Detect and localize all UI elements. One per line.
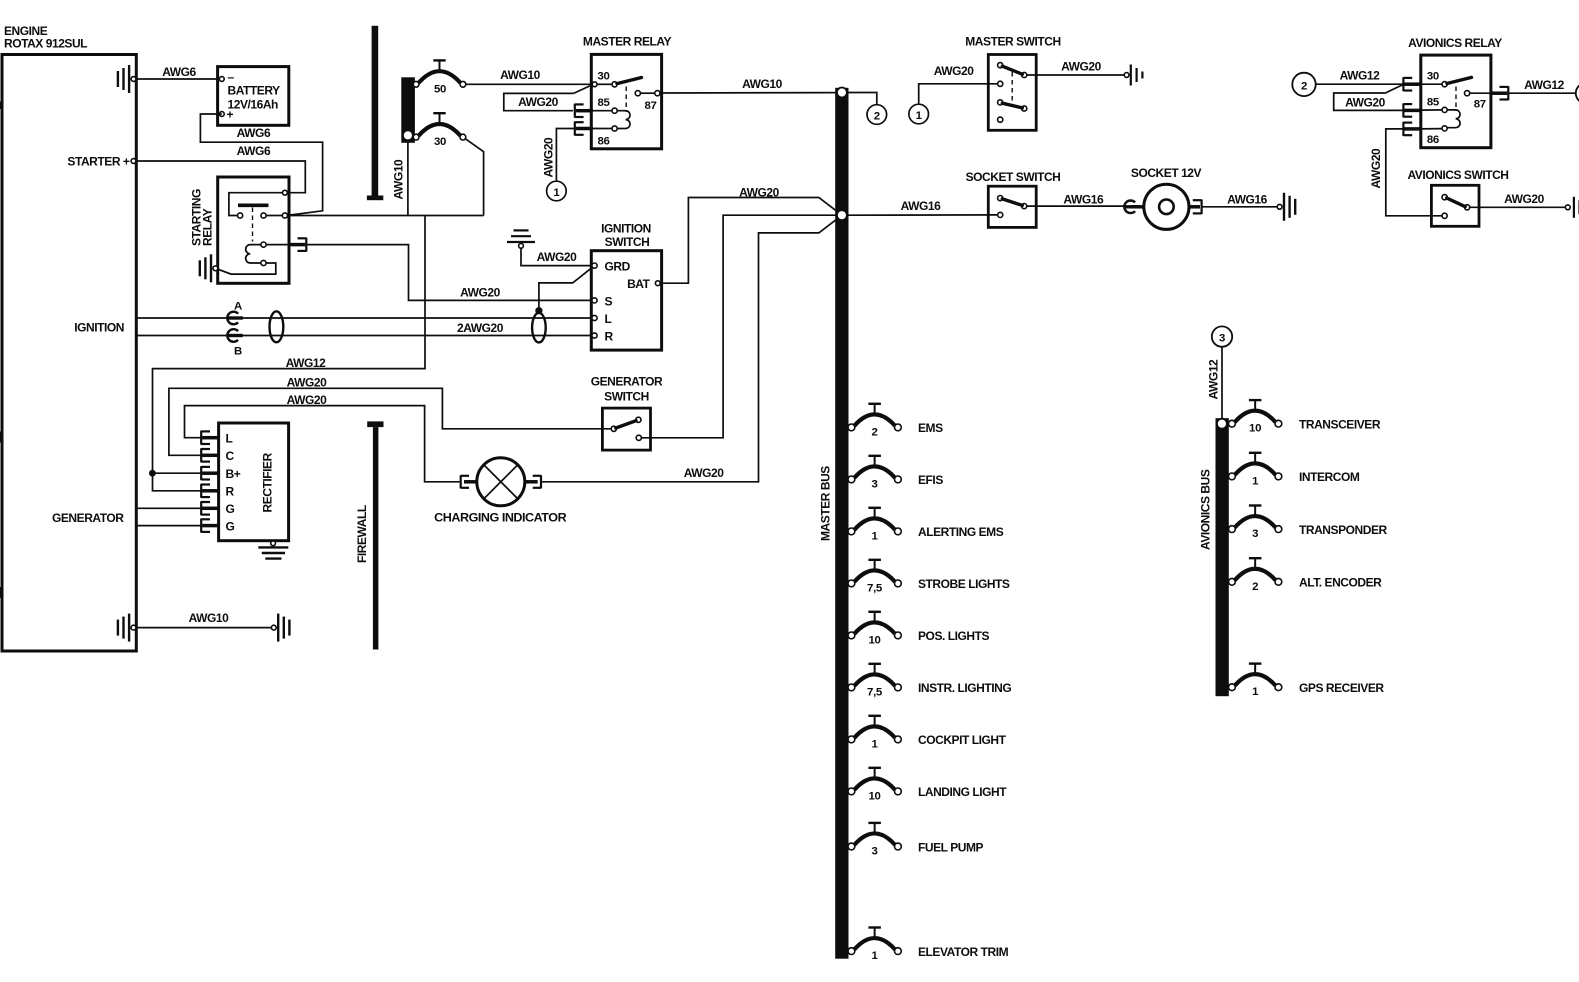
svg-text:STROBE LIGHTS: STROBE LIGHTS: [918, 577, 1010, 591]
svg-text:85: 85: [1427, 97, 1440, 109]
svg-text:10: 10: [868, 790, 880, 802]
svg-text:1: 1: [553, 187, 560, 199]
svg-text:AWG20: AWG20: [684, 466, 725, 480]
svg-text:GPS RECEIVER: GPS RECEIVER: [1299, 681, 1384, 695]
svg-text:1: 1: [916, 110, 923, 122]
svg-text:AWG20: AWG20: [287, 393, 328, 407]
svg-text:AWG16: AWG16: [901, 199, 942, 213]
svg-text:AWG20: AWG20: [739, 185, 780, 199]
svg-text:ALERTING EMS: ALERTING EMS: [918, 525, 1004, 539]
svg-text:IGNITION: IGNITION: [74, 321, 124, 335]
svg-text:AWG20: AWG20: [518, 95, 559, 109]
svg-text:2AWG20: 2AWG20: [457, 321, 504, 335]
svg-text:AWG16: AWG16: [1227, 193, 1268, 207]
svg-text:2: 2: [1301, 80, 1307, 92]
svg-text:AWG12: AWG12: [286, 356, 327, 370]
svg-text:SOCKET 12V: SOCKET 12V: [1131, 166, 1202, 180]
svg-text:AWG6: AWG6: [237, 126, 271, 140]
svg-text:RELAY: RELAY: [200, 208, 214, 246]
svg-text:A: A: [234, 301, 242, 313]
svg-text:RECTIFIER: RECTIFIER: [261, 452, 275, 512]
svg-text:50: 50: [434, 83, 446, 95]
svg-text:IGNITION: IGNITION: [601, 221, 651, 235]
svg-text:SWITCH: SWITCH: [604, 390, 649, 404]
svg-text:BATTERY: BATTERY: [228, 84, 281, 98]
svg-text:10: 10: [868, 634, 880, 646]
svg-text:87: 87: [1474, 99, 1486, 111]
svg-text:7,5: 7,5: [867, 582, 883, 594]
svg-text:GRD: GRD: [605, 259, 631, 273]
svg-text:B: B: [234, 346, 242, 358]
svg-text:AVIONICS SWITCH: AVIONICS SWITCH: [1407, 168, 1508, 182]
svg-text:AWG20: AWG20: [1504, 192, 1545, 206]
svg-text:AWG20: AWG20: [1061, 60, 1102, 74]
svg-text:1: 1: [1252, 686, 1259, 698]
svg-text:10: 10: [1249, 423, 1261, 435]
svg-text:S: S: [605, 294, 613, 308]
svg-text:AWG10: AWG10: [742, 77, 783, 91]
svg-text:CHARGING INDICATOR: CHARGING INDICATOR: [434, 511, 567, 525]
svg-text:EFIS: EFIS: [918, 473, 943, 487]
svg-text:AWG10: AWG10: [392, 159, 406, 200]
svg-text:ELEVATOR TRIM: ELEVATOR TRIM: [918, 945, 1009, 959]
svg-text:R: R: [226, 485, 235, 499]
svg-text:AWG12: AWG12: [1524, 78, 1565, 92]
svg-text:AWG16: AWG16: [1063, 192, 1104, 206]
svg-text:TRANSPONDER: TRANSPONDER: [1299, 523, 1388, 537]
svg-text:AWG20: AWG20: [934, 64, 975, 78]
svg-text:2: 2: [1252, 581, 1258, 593]
svg-text:85: 85: [598, 97, 611, 109]
svg-text:GENERATOR: GENERATOR: [591, 374, 663, 388]
svg-text:POS. LIGHTS: POS. LIGHTS: [918, 629, 990, 643]
svg-text:STARTER +: STARTER +: [67, 155, 130, 169]
svg-text:SWITCH: SWITCH: [605, 235, 650, 249]
svg-text:1: 1: [871, 950, 878, 962]
svg-text:7,5: 7,5: [867, 686, 883, 698]
svg-text:INSTR. LIGHTING: INSTR. LIGHTING: [918, 681, 1011, 695]
svg-text:FIREWALL: FIREWALL: [355, 505, 369, 563]
svg-text:G: G: [226, 502, 235, 516]
svg-text:L: L: [226, 431, 233, 445]
svg-text:86: 86: [1427, 134, 1439, 146]
svg-text:G: G: [226, 519, 235, 533]
svg-text:B+: B+: [226, 467, 241, 481]
svg-text:R: R: [605, 329, 614, 343]
svg-text:AWG10: AWG10: [189, 611, 230, 625]
svg-text:INTERCOM: INTERCOM: [1299, 470, 1360, 484]
svg-text:2: 2: [871, 426, 877, 438]
svg-text:30: 30: [1427, 70, 1439, 82]
svg-text:AWG20: AWG20: [1369, 148, 1383, 189]
svg-text:AWG12: AWG12: [1207, 359, 1221, 400]
svg-text:+: +: [227, 108, 234, 122]
svg-text:AWG10: AWG10: [500, 68, 541, 82]
svg-text:87: 87: [645, 100, 657, 112]
svg-text:MASTER RELAY: MASTER RELAY: [583, 35, 672, 49]
svg-text:3: 3: [871, 846, 877, 858]
svg-text:SOCKET SWITCH: SOCKET SWITCH: [966, 170, 1061, 184]
svg-text:AWG20: AWG20: [1345, 95, 1386, 109]
svg-text:LANDING LIGHT: LANDING LIGHT: [918, 785, 1007, 799]
svg-text:AWG20: AWG20: [287, 376, 328, 390]
svg-text:3: 3: [1252, 528, 1258, 540]
svg-text:AWG6: AWG6: [162, 65, 196, 79]
svg-text:1: 1: [871, 738, 878, 750]
svg-text:3: 3: [1219, 333, 1225, 345]
svg-text:–: –: [228, 70, 235, 84]
svg-text:AWG12: AWG12: [1340, 68, 1381, 82]
svg-text:GENERATOR: GENERATOR: [52, 511, 124, 525]
svg-text:30: 30: [598, 71, 610, 83]
svg-text:MASTER SWITCH: MASTER SWITCH: [965, 35, 1060, 49]
svg-text:ROTAX 912SUL: ROTAX 912SUL: [4, 37, 87, 51]
svg-text:2: 2: [874, 110, 880, 122]
svg-text:L: L: [605, 312, 612, 326]
svg-text:FUEL PUMP: FUEL PUMP: [918, 840, 984, 854]
svg-text:AVIONICS BUS: AVIONICS BUS: [1199, 469, 1213, 550]
svg-text:AWG20: AWG20: [460, 285, 501, 299]
svg-text:12V/16Ah: 12V/16Ah: [228, 97, 279, 111]
svg-text:30: 30: [434, 136, 446, 148]
svg-text:C: C: [226, 449, 235, 463]
svg-text:1: 1: [1252, 475, 1259, 487]
svg-text:AWG6: AWG6: [237, 144, 271, 158]
svg-text:EMS: EMS: [918, 421, 943, 435]
svg-text:1: 1: [871, 530, 878, 542]
svg-text:AWG20: AWG20: [537, 250, 578, 264]
svg-text:COCKPIT LIGHT: COCKPIT LIGHT: [918, 733, 1007, 747]
svg-text:BAT: BAT: [627, 277, 651, 291]
svg-text:MASTER BUS: MASTER BUS: [819, 466, 833, 541]
svg-text:3: 3: [871, 478, 877, 490]
svg-text:86: 86: [598, 136, 610, 148]
svg-text:ALT. ENCODER: ALT. ENCODER: [1299, 576, 1382, 590]
svg-text:TRANSCEIVER: TRANSCEIVER: [1299, 418, 1381, 432]
svg-text:AVIONICS RELAY: AVIONICS RELAY: [1408, 36, 1502, 50]
svg-text:AWG20: AWG20: [542, 137, 556, 178]
